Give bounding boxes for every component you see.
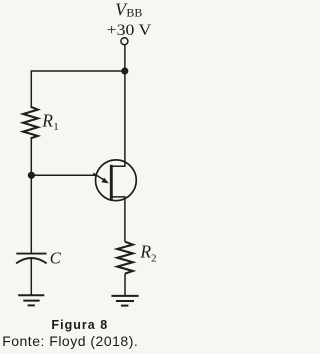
capacitor C	[16, 254, 46, 264]
caption source	[2, 333, 138, 349]
caption title	[0, 318, 161, 332]
wire emitter	[31, 174, 96, 176]
svg-text:+30 V: +30 V	[107, 22, 152, 39]
svg-text:C: C	[50, 248, 62, 267]
transistor Q1 (UJT)	[93, 71, 136, 242]
node top junction	[121, 67, 128, 74]
ground left	[18, 295, 44, 305]
label VBB	[115, 0, 142, 20]
label R2	[139, 242, 156, 265]
wire capacitor to ground	[30, 258, 32, 295]
svg-text:R: R	[41, 110, 53, 130]
wire left rail upper	[30, 70, 32, 106]
svg-text:R: R	[139, 242, 151, 262]
node gate junction	[28, 172, 35, 179]
label R1	[41, 110, 59, 132]
svg-text:2: 2	[151, 252, 157, 264]
svg-text:1: 1	[53, 121, 59, 133]
svg-text:BB: BB	[126, 5, 142, 19]
resistor R1	[23, 107, 38, 139]
wire top horizontal	[31, 70, 125, 72]
wire R2 to ground	[124, 274, 126, 296]
terminal VBB	[121, 38, 128, 45]
wire terminal to top junction	[124, 45, 126, 71]
resistor R2	[117, 242, 133, 274]
wire left rail middle	[30, 138, 32, 253]
ground right	[111, 296, 138, 306]
